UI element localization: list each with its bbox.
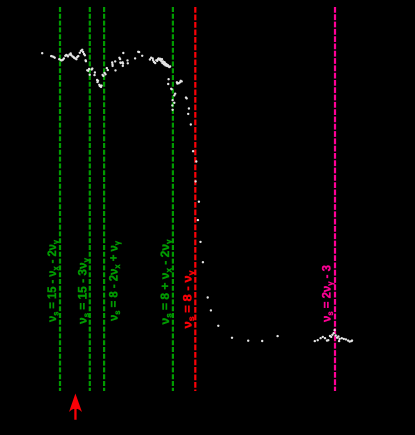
- red arrow: [69, 394, 82, 420]
- scatter points: [41, 49, 353, 343]
- magenta resonance line: [334, 7, 336, 391]
- green resonance line 1: [59, 7, 61, 391]
- svg-text:νs = 8 + νx - 2νγ: νs = 8 + νx - 2νγ: [158, 239, 174, 325]
- green resonance line 3: [103, 7, 105, 391]
- red resonance line: [194, 7, 196, 391]
- green resonance line 4: [172, 7, 174, 391]
- rotated labels: [45, 239, 335, 329]
- dashed vertical lines: [60, 7, 335, 391]
- green resonance line 2: [89, 7, 91, 391]
- svg-text:νs = 15 - νx - 2νγ: νs = 15 - νx - 2νγ: [45, 239, 61, 322]
- svg-text:νs = 8 - 2νx + νγ: νs = 8 - 2νx + νγ: [107, 240, 123, 321]
